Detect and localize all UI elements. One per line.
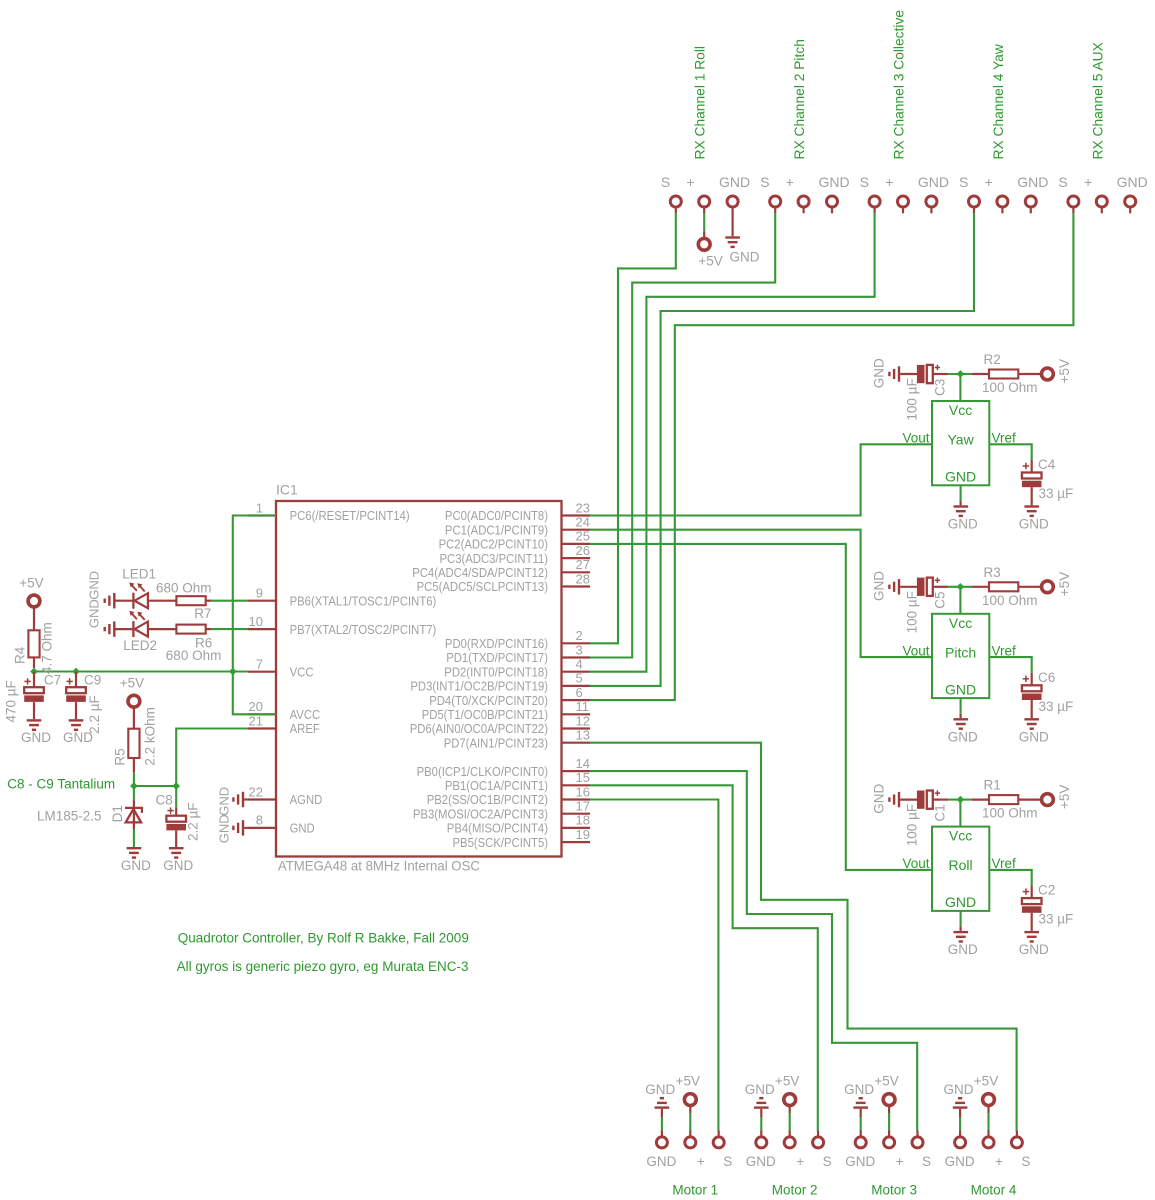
svg-text:Vcc: Vcc (949, 828, 972, 844)
svg-text:100 µF: 100 µF (904, 804, 919, 846)
IC1 pin 22 AGND (248, 784, 323, 807)
svg-text:13: 13 (576, 728, 590, 743)
svg-text:20: 20 (249, 699, 263, 714)
svg-text:+: + (786, 174, 794, 190)
svg-text:Motor 2: Motor 2 (772, 1182, 818, 1197)
svg-text:GND: GND (163, 858, 193, 873)
svg-text:Vcc: Vcc (949, 402, 972, 418)
IC1 pin 8 GND (248, 813, 315, 836)
supply +5V symbol at R3 (1042, 572, 1073, 596)
svg-text:GND: GND (871, 571, 886, 601)
ground symbol at LED2 (87, 599, 116, 637)
connector X2 pin S pad (760, 174, 780, 214)
ground symbol below D1 (121, 847, 151, 873)
net label RX Channel 4 Yaw (991, 44, 1006, 159)
svg-text:16: 16 (576, 784, 590, 799)
supply +5V symbol at Motor 1 connector (676, 1073, 700, 1131)
ground symbol at RX connector 1 (725, 213, 759, 265)
svg-text:PC1(ADC1/PCINT9): PC1(ADC1/PCINT9) (445, 522, 548, 537)
svg-text:25: 25 (576, 529, 590, 544)
svg-text:12: 12 (576, 713, 590, 728)
svg-text:C6: C6 (1038, 670, 1055, 685)
svg-text:LM185-2.5: LM185-2.5 (37, 809, 102, 824)
svg-text:GND: GND (1019, 517, 1049, 532)
wire Roll Vcc rail (948, 800, 972, 827)
ground symbol at C5 (871, 571, 917, 601)
connector Motor 3 pin S pad (912, 1131, 931, 1169)
svg-text:Quadrotor Controller, By Rolf: Quadrotor Controller, By Rolf R Bakke, F… (178, 931, 469, 946)
capacitor C9 2.2 uF (66, 672, 102, 734)
resistor R5 2.2 kOhm (113, 707, 158, 786)
svg-text:GND: GND (871, 358, 886, 388)
wire LED1 resistor to IC (212, 600, 248, 602)
svg-text:24: 24 (576, 515, 590, 530)
capacitor C7 470 uF (4, 672, 61, 723)
ground symbol below C4 (1019, 505, 1049, 531)
wire Roll Vout to IC1 pin 25 (590, 544, 932, 870)
svg-text:+5V: +5V (974, 1073, 998, 1088)
svg-text:+5V: +5V (775, 1073, 799, 1088)
wire Yaw Vref to C4 (989, 444, 1031, 460)
svg-text:S: S (860, 174, 869, 190)
label Motor 1 (672, 1182, 718, 1197)
svg-text:C4: C4 (1038, 457, 1056, 472)
IC1 pin 9 PB6(XTAL1/TOSC1/PCINT6) (248, 586, 437, 609)
ground symbol below Yaw block (948, 485, 978, 531)
capacitor C3 100 uF (904, 365, 948, 421)
svg-text:GND: GND (948, 942, 978, 957)
IC1 pin 20 AVCC (248, 699, 321, 722)
supply +5V symbol at R1 (1042, 785, 1073, 809)
svg-text:+5V: +5V (1057, 572, 1072, 596)
svg-text:C8 - C9 Tantalium: C8 - C9 Tantalium (7, 777, 115, 792)
svg-text:Motor 4: Motor 4 (971, 1182, 1017, 1197)
svg-text:PB3(MOSI/OC2A/PCINT3): PB3(MOSI/OC2A/PCINT3) (413, 806, 548, 821)
wire RX channel 3 signal to IC (590, 213, 875, 672)
supply +5V symbol at RX connector 1 (698, 213, 723, 269)
svg-text:21: 21 (249, 713, 263, 728)
svg-text:19: 19 (576, 827, 590, 842)
ground symbol at C1 (871, 784, 917, 814)
svg-text:GND: GND (945, 1154, 975, 1169)
ground symbol below C9 (63, 719, 93, 745)
svg-text:33 µF: 33 µF (1039, 912, 1074, 927)
IC1 pin 11 PD5(T1/OC0B/PCINT21) (422, 699, 590, 722)
svg-text:+: + (985, 174, 993, 190)
connector X2 pin + pad (786, 174, 809, 214)
IC1 pin 7 VCC (248, 657, 314, 680)
svg-text:GND: GND (645, 1082, 675, 1097)
svg-text:+: + (796, 1154, 804, 1169)
wire 2.5V ref node R5 to C8 (134, 785, 176, 787)
svg-text:10: 10 (249, 614, 263, 629)
svg-text:2.2 µF: 2.2 µF (87, 695, 102, 734)
svg-text:5: 5 (576, 671, 583, 686)
IC1 pin 18 PB4(MISO/PCINT4) (447, 813, 590, 836)
net label RX Channel 5 AUX (1090, 42, 1105, 159)
junction VCC at C9 (72, 668, 80, 676)
svg-text:D1: D1 (110, 805, 125, 822)
IC1 pin 10 PB7(XTAL2/TOSC2/PCINT7) (248, 614, 437, 637)
resistor R6 680 Ohm (176, 625, 211, 634)
svg-text:AREF: AREF (290, 721, 320, 736)
IC1 pin 25 PC2(ADC2/PCINT10) (439, 529, 590, 552)
ground symbol at Motor 4 connector (944, 1082, 974, 1131)
wire IC1 pin 14 to Motor 3 S (590, 771, 917, 1131)
svg-text:100 µF: 100 µF (904, 591, 919, 633)
svg-text:Pitch: Pitch (945, 644, 976, 660)
svg-text:26: 26 (576, 543, 590, 558)
connector X3 pin S pad (860, 174, 880, 214)
svg-text:680 Ohm: 680 Ohm (166, 648, 222, 663)
resistor R4 4.7 Ohm (12, 607, 54, 674)
svg-text:22: 22 (249, 784, 263, 799)
svg-text:RX Channel 4 Yaw: RX Channel 4 Yaw (991, 44, 1006, 159)
svg-text:23: 23 (576, 500, 590, 515)
label LM185-2.5 (37, 809, 102, 824)
svg-text:RX Channel 3 Collective: RX Channel 3 Collective (892, 10, 907, 160)
svg-text:6: 6 (576, 685, 583, 700)
svg-text:GND: GND (944, 1082, 974, 1097)
resistor R1 100 Ohm (972, 778, 1042, 821)
wire LED2 resistor to IC (212, 628, 248, 630)
net label RX Channel 1 Roll (693, 46, 708, 160)
svg-text:AGND: AGND (290, 792, 323, 807)
supply +5V symbol at Motor 3 connector (874, 1073, 898, 1131)
IC1 pin 21 AREF (248, 713, 320, 736)
svg-text:PC0(ADC0/PCINT8): PC0(ADC0/PCINT8) (445, 508, 548, 523)
connector Motor 1 pin + pad (685, 1131, 705, 1169)
gyro Roll block (902, 827, 1016, 911)
resistor R3 100 Ohm (972, 565, 1042, 608)
IC1 pin 15 PB1(OC1A/PCINT1) (445, 770, 590, 793)
svg-text:Yaw: Yaw (947, 432, 974, 448)
svg-text:Roll: Roll (949, 857, 973, 873)
svg-text:GND: GND (845, 1154, 875, 1169)
svg-text:2.2 kOhm: 2.2 kOhm (143, 707, 158, 766)
supply +5V symbol at R2 (1042, 359, 1073, 383)
ground symbol below Pitch block (948, 698, 978, 744)
svg-text:R2: R2 (984, 352, 1001, 367)
svg-text:PC6(/RESET/PCINT14): PC6(/RESET/PCINT14) (290, 508, 410, 523)
svg-text:C5: C5 (932, 592, 947, 609)
svg-text:2.2 µF: 2.2 µF (186, 802, 201, 841)
LED LED2 (116, 611, 177, 637)
wire Roll Vref to C2 (989, 870, 1031, 886)
junction at R5 bottom (130, 782, 138, 790)
svg-text:GND: GND (121, 858, 151, 873)
svg-text:GND: GND (21, 730, 51, 745)
svg-text:33 µF: 33 µF (1039, 699, 1074, 714)
svg-text:PB5(SCK/PCINT5): PB5(SCK/PCINT5) (453, 835, 549, 850)
svg-text:3: 3 (576, 642, 583, 657)
connector Motor 3 pin + pad (884, 1131, 904, 1169)
wire IC1 pin 15 to Motor 2 S (590, 785, 818, 1131)
svg-text:18: 18 (576, 813, 590, 828)
svg-text:S: S (661, 174, 670, 190)
IC1 pin 19 PB5(SCK/PCINT5) (453, 827, 591, 850)
svg-text:4.7 Ohm: 4.7 Ohm (40, 622, 55, 674)
svg-text:GND: GND (87, 599, 102, 628)
svg-text:C1: C1 (932, 804, 947, 821)
svg-text:PB7(XTAL2/TOSC2/PCINT7): PB7(XTAL2/TOSC2/PCINT7) (290, 622, 437, 637)
svg-text:R3: R3 (984, 565, 1001, 580)
wire AREF pin21 to C8 node (176, 729, 247, 787)
IC1 pin 28 PC5(ADC5/SCLPCINT13) (417, 571, 590, 594)
label GND rotated for pin 8 (217, 814, 232, 843)
svg-text:LED1: LED1 (122, 567, 156, 582)
wire Yaw Vcc rail (948, 374, 972, 401)
wire Yaw Vout to IC1 pin 23 (590, 444, 932, 515)
svg-text:PD2(INT0/PCINT18): PD2(INT0/PCINT18) (444, 664, 548, 679)
svg-text:PB6(XTAL1/TOSC1/PCINT6): PB6(XTAL1/TOSC1/PCINT6) (290, 593, 437, 608)
junction VCC at pin7 column (229, 668, 237, 676)
svg-text:PB4(MISO/PCINT4): PB4(MISO/PCINT4) (447, 821, 548, 836)
svg-text:680 Ohm: 680 Ohm (156, 581, 212, 596)
svg-text:GND: GND (818, 174, 849, 190)
label R7 (194, 606, 211, 621)
IC1 pin 3 PD1(TXD/PCINT17) (446, 642, 590, 665)
svg-text:ATMEGA48 at 8MHz Internal OSC: ATMEGA48 at 8MHz Internal OSC (278, 859, 480, 874)
label GND rotated for pin 22 (217, 787, 232, 816)
svg-text:S: S (760, 174, 769, 190)
svg-text:2: 2 (576, 628, 583, 643)
svg-text:S: S (1058, 174, 1067, 190)
svg-text:GND: GND (217, 787, 232, 816)
IC1 pin 13 PD7(AIN1/PCINT23) (444, 728, 590, 751)
svg-text:GND: GND (945, 681, 976, 697)
IC1 pin 14 PB0(ICP1/CLKO/PCINT0) (417, 756, 590, 779)
connector Motor 2 pin + pad (784, 1131, 804, 1169)
connector X1 pin GND pad (719, 174, 750, 214)
svg-text:4: 4 (576, 657, 583, 672)
wire RX channel 5 signal to IC (590, 213, 1073, 700)
connector X1 pin S pad (661, 174, 681, 214)
svg-text:+5V: +5V (676, 1073, 700, 1088)
svg-text:GND: GND (646, 1154, 676, 1169)
svg-text:AVCC: AVCC (290, 707, 321, 722)
wire VCC net pin7 horizontal (34, 670, 248, 672)
svg-text:PC4(ADC4/SDA/PCINT12): PC4(ADC4/SDA/PCINT12) (412, 565, 548, 580)
junction VCC at R4/C7 (30, 668, 38, 676)
IC1 pin 27 PC4(ADC4/SDA/PCINT12) (412, 557, 590, 580)
svg-text:IC1: IC1 (276, 482, 298, 498)
wire Pitch Vcc rail (948, 587, 972, 614)
IC1 pin 1 PC6(/RESET/PCINT14) (248, 500, 410, 523)
capacitor C4 33 uF (1022, 457, 1073, 505)
svg-text:GND: GND (871, 784, 886, 814)
IC1 pin 17 PB3(MOSI/OC2A/PCINT3) (413, 799, 590, 822)
svg-text:R5: R5 (113, 748, 128, 765)
svg-text:R7: R7 (194, 606, 211, 621)
svg-text:Vref: Vref (992, 856, 1017, 871)
IC1 pin 24 PC1(ADC1/PCINT9) (445, 515, 590, 538)
IC1 pin 16 PB2(SS/OC1B/PCINT2) (427, 784, 590, 807)
svg-text:+5V: +5V (874, 1073, 898, 1088)
svg-text:+: + (896, 1154, 904, 1169)
IC1 pin 5 PD3(INT1/OC2B/PCINT19) (410, 671, 590, 694)
ground symbol at IC1 pin 8 GND (232, 820, 247, 835)
svg-text:PD5(T1/OC0B/PCINT21): PD5(T1/OC0B/PCINT21) (422, 707, 548, 722)
svg-text:100 Ohm: 100 Ohm (982, 806, 1038, 821)
svg-text:Motor 3: Motor 3 (871, 1182, 917, 1197)
connector X4 pin S pad (959, 174, 979, 214)
svg-text:All gyros is generic piezo gyr: All gyros is generic piezo gyro, eg Mura… (177, 959, 469, 974)
junction AREF node at C8 (172, 782, 180, 790)
svg-text:+5V: +5V (19, 576, 43, 591)
svg-text:GND: GND (1117, 174, 1148, 190)
svg-text:GND: GND (719, 174, 750, 190)
ground symbol below C2 (1019, 931, 1049, 957)
gyro Yaw block (902, 401, 1016, 485)
ground symbol below C8 (163, 847, 193, 873)
junction Pitch Vcc (957, 583, 965, 591)
svg-text:+5V: +5V (120, 675, 144, 690)
capacitor C2 33 uF (1022, 883, 1073, 931)
connector X1 pin + pad (686, 174, 709, 214)
LED LED1 (116, 582, 177, 608)
label LED1 (122, 567, 156, 582)
svg-text:17: 17 (576, 799, 590, 814)
svg-text:R1: R1 (984, 778, 1001, 793)
capacitor C1 100 uF (904, 790, 948, 846)
supply +5V symbol at Motor 2 connector (775, 1073, 799, 1131)
svg-text:GND: GND (945, 469, 976, 485)
svg-text:GND: GND (745, 1082, 775, 1097)
net label RX Channel 2 Pitch (792, 39, 807, 159)
ground symbol at C3 (871, 358, 917, 388)
svg-text:PD1(TXD/PCINT17): PD1(TXD/PCINT17) (446, 650, 548, 665)
connector Motor 4 pin S pad (1011, 1131, 1030, 1169)
svg-text:C9: C9 (84, 673, 101, 688)
IC1 pin 4 PD2(INT0/PCINT18) (444, 657, 590, 680)
svg-text:PC5(ADC5/SCLPCINT13): PC5(ADC5/SCLPCINT13) (417, 579, 548, 594)
capacitor C6 33 uF (1022, 670, 1073, 718)
connector Motor 2 pin GND pad (746, 1131, 776, 1169)
svg-text:LED2: LED2 (123, 638, 157, 653)
svg-text:GND: GND (63, 730, 93, 745)
svg-text:1: 1 (256, 500, 263, 515)
svg-text:RX Channel 5 AUX: RX Channel 5 AUX (1090, 42, 1105, 159)
label Motor 4 (971, 1182, 1017, 1197)
svg-text:S: S (959, 174, 968, 190)
svg-text:PD6(AIN0/OC0A/PCINT22): PD6(AIN0/OC0A/PCINT22) (410, 721, 548, 736)
connector Motor 1 pin S pad (713, 1131, 732, 1169)
svg-text:28: 28 (576, 571, 590, 586)
svg-text:GND: GND (746, 1154, 776, 1169)
capacitor C8 2.2 uF (156, 786, 201, 847)
svg-text:GND: GND (948, 729, 978, 744)
ground symbol at LED1 (87, 571, 116, 609)
svg-text:PD7(AIN1/PCINT23): PD7(AIN1/PCINT23) (444, 735, 548, 750)
svg-text:S: S (823, 1154, 832, 1169)
svg-text:PC2(ADC2/PCINT10): PC2(ADC2/PCINT10) (439, 537, 548, 552)
wire RX channel 4 signal to IC (590, 213, 974, 686)
svg-text:GND: GND (217, 814, 232, 843)
svg-text:C7: C7 (44, 673, 61, 688)
svg-text:PB0(ICP1/CLKO/PCINT0): PB0(ICP1/CLKO/PCINT0) (417, 764, 548, 779)
connector X5 pin + pad (1084, 174, 1107, 214)
ground symbol at Motor 1 connector (645, 1082, 675, 1131)
svg-text:GND: GND (87, 571, 102, 600)
svg-text:+5V: +5V (1057, 359, 1072, 383)
svg-text:PB2(SS/OC1B/PCINT2): PB2(SS/OC1B/PCINT2) (427, 792, 548, 807)
label R6 (195, 636, 212, 651)
ground symbol below C6 (1019, 718, 1049, 744)
IC1 pin 26 PC3(ADC3/PCINT11) (440, 543, 591, 566)
svg-text:+: + (697, 1154, 705, 1169)
wire IC1 pin 16 to Motor 1 S (590, 800, 718, 1132)
wire IC1 pin 13 to Motor 4 S (590, 743, 1017, 1131)
svg-text:Motor 1: Motor 1 (672, 1182, 718, 1197)
connector X3 pin GND pad (918, 174, 949, 214)
label 680 Ohm for R7 (156, 581, 212, 596)
svg-text:GND: GND (945, 894, 976, 910)
wire Pitch Vout to IC1 pin 24 (590, 530, 932, 657)
svg-text:33 µF: 33 µF (1039, 486, 1074, 501)
connector X4 pin + pad (985, 174, 1008, 214)
connector Motor 4 pin + pad (983, 1131, 1003, 1169)
junction Yaw Vcc (957, 370, 965, 378)
connector Motor 2 pin S pad (813, 1131, 832, 1169)
wire RX channel 2 signal to IC (590, 213, 775, 658)
connector X3 pin + pad (885, 174, 908, 214)
svg-text:GND: GND (918, 174, 949, 190)
svg-text:RX Channel 2 Pitch: RX Channel 2 Pitch (792, 39, 807, 159)
svg-text:C2: C2 (1038, 883, 1055, 898)
connector X5 pin S pad (1058, 174, 1078, 214)
svg-text:100 Ohm: 100 Ohm (982, 593, 1038, 608)
svg-text:14: 14 (576, 756, 590, 771)
IC1 pin 2 PD0(RXD/PCINT16) (445, 628, 590, 651)
ground symbol below Roll block (948, 911, 978, 957)
svg-text:PD3(INT1/OC2B/PCINT19): PD3(INT1/OC2B/PCINT19) (410, 679, 548, 694)
svg-text:11: 11 (576, 699, 590, 714)
svg-text:470 µF: 470 µF (4, 680, 19, 722)
svg-text:GND: GND (1019, 729, 1049, 744)
svg-text:GND: GND (948, 517, 978, 532)
label Motor 2 (772, 1182, 818, 1197)
svg-text:15: 15 (576, 770, 590, 785)
ground symbol at Motor 2 connector (745, 1082, 775, 1131)
wire RX channel 1 signal to IC (590, 213, 676, 644)
IC1 pin 6 PD4(T0/XCK/PCINT20) (429, 685, 590, 708)
svg-text:S: S (922, 1154, 931, 1169)
svg-text:100 µF: 100 µF (904, 378, 919, 420)
svg-text:S: S (723, 1154, 732, 1169)
svg-text:GND: GND (1017, 174, 1048, 190)
ground symbol at Motor 3 connector (844, 1082, 874, 1131)
svg-text:7: 7 (256, 657, 263, 672)
label LED2 (123, 638, 157, 653)
svg-text:GND: GND (290, 821, 315, 836)
label 680 Ohm for R6 (166, 648, 222, 663)
svg-text:8: 8 (256, 813, 263, 828)
connector Motor 4 pin GND pad (945, 1131, 975, 1169)
connector Motor 3 pin GND pad (845, 1131, 875, 1169)
wire VCC net pin1 to pin7 to pin20 (233, 516, 276, 715)
supply +5V symbol above R4 (19, 576, 43, 607)
svg-text:GND: GND (730, 250, 760, 265)
svg-text:R4: R4 (12, 646, 27, 664)
note gyros (177, 959, 469, 974)
svg-text:Vout: Vout (902, 856, 929, 871)
svg-text:VCC: VCC (290, 664, 314, 679)
svg-text:PC3(ADC3/PCINT11): PC3(ADC3/PCINT11) (440, 551, 549, 566)
capacitor C5 100 uF (904, 578, 948, 634)
junction Roll Vcc (957, 796, 965, 804)
svg-text:S: S (1021, 1154, 1030, 1169)
